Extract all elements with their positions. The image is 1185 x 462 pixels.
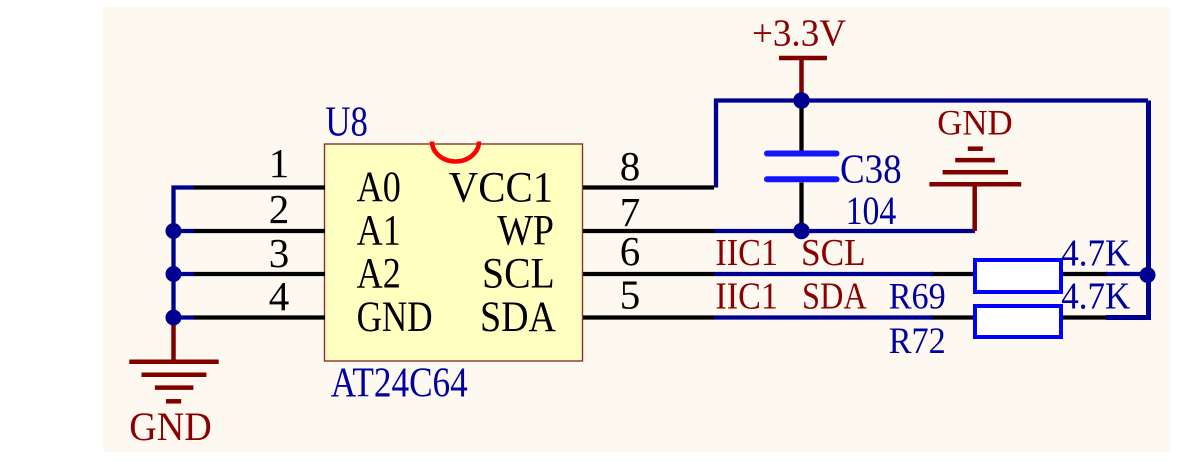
svg-text:U8: U8 bbox=[325, 100, 368, 146]
svg-text:SCL: SCL bbox=[482, 251, 555, 298]
svg-text:A2: A2 bbox=[357, 251, 401, 298]
svg-text:R69: R69 bbox=[889, 277, 946, 318]
svg-text:A0: A0 bbox=[357, 164, 401, 211]
svg-text:C38: C38 bbox=[840, 146, 902, 192]
svg-text:2: 2 bbox=[269, 186, 290, 232]
svg-text:AT24C64: AT24C64 bbox=[331, 361, 468, 407]
svg-text:4.7K: 4.7K bbox=[1061, 232, 1130, 274]
svg-text:8: 8 bbox=[620, 143, 641, 189]
svg-text:GND: GND bbox=[357, 294, 433, 341]
svg-text:SDA: SDA bbox=[480, 294, 556, 341]
svg-text:4.7K: 4.7K bbox=[1061, 276, 1130, 318]
svg-text:104: 104 bbox=[846, 188, 897, 233]
svg-text:IIC1: IIC1 bbox=[715, 232, 778, 274]
svg-text:R72: R72 bbox=[889, 321, 946, 362]
svg-text:3: 3 bbox=[269, 230, 290, 276]
svg-text:A1: A1 bbox=[357, 207, 401, 254]
svg-text:6: 6 bbox=[620, 228, 641, 274]
svg-text:GND: GND bbox=[937, 103, 1012, 143]
svg-text:WP: WP bbox=[497, 207, 554, 254]
svg-text:4: 4 bbox=[269, 273, 290, 319]
svg-text:SCL: SCL bbox=[801, 232, 866, 274]
svg-text:5: 5 bbox=[620, 272, 641, 318]
svg-text:IIC1: IIC1 bbox=[715, 276, 778, 318]
svg-text:SDA: SDA bbox=[802, 276, 867, 318]
svg-text:GND: GND bbox=[129, 404, 211, 449]
svg-text:1: 1 bbox=[269, 140, 290, 186]
svg-text:VCC1: VCC1 bbox=[449, 165, 553, 212]
svg-text:+3.3V: +3.3V bbox=[752, 13, 847, 55]
